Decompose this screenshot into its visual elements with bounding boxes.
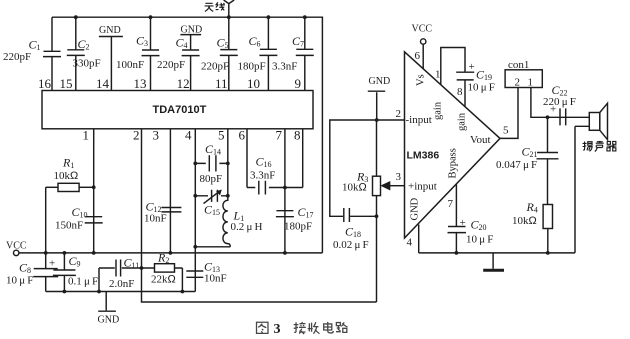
- svg-text:10kΩ: 10kΩ: [512, 215, 537, 227]
- svg-text:3: 3: [396, 171, 402, 183]
- svg-text:+: +: [469, 61, 475, 73]
- svg-text:10kΩ: 10kΩ: [54, 170, 79, 182]
- svg-text:3: 3: [153, 128, 160, 143]
- svg-text:14: 14: [96, 76, 110, 91]
- svg-text:80pF: 80pF: [200, 173, 223, 185]
- svg-text:150nF: 150nF: [55, 220, 83, 232]
- svg-text:11: 11: [215, 76, 228, 91]
- svg-text:5: 5: [503, 125, 509, 137]
- svg-text:8: 8: [457, 86, 463, 98]
- svg-text:gain: gain: [457, 112, 468, 131]
- svg-text:con1: con1: [508, 59, 529, 71]
- svg-text:0.1 μ F: 0.1 μ F: [68, 276, 98, 288]
- svg-text:100nF: 100nF: [116, 59, 144, 71]
- svg-text:330pF: 330pF: [73, 58, 101, 70]
- svg-text:0.047 μ F: 0.047 μ F: [496, 159, 537, 171]
- svg-text:2: 2: [396, 108, 402, 120]
- svg-text:1: 1: [83, 128, 90, 143]
- svg-text:VCC: VCC: [6, 241, 27, 252]
- svg-text:0.2 μ H: 0.2 μ H: [231, 221, 263, 233]
- svg-text:10kΩ: 10kΩ: [342, 182, 367, 194]
- svg-text:LM386: LM386: [407, 150, 440, 162]
- svg-text:0.02 μ F: 0.02 μ F: [333, 239, 369, 251]
- svg-text:1: 1: [435, 69, 441, 81]
- svg-text:2: 2: [515, 77, 521, 89]
- svg-text:Vs: Vs: [416, 74, 427, 86]
- svg-text:220pF: 220pF: [201, 61, 229, 73]
- svg-text:+input: +input: [408, 181, 437, 193]
- svg-text:9: 9: [295, 76, 302, 91]
- svg-text:10nF: 10nF: [204, 273, 227, 285]
- svg-text:5: 5: [218, 128, 225, 143]
- svg-text:10 μ F: 10 μ F: [6, 275, 33, 287]
- svg-text:GND: GND: [410, 197, 421, 220]
- svg-text:220 μ F: 220 μ F: [543, 96, 576, 108]
- svg-text:3.3nF: 3.3nF: [272, 61, 297, 73]
- svg-text:10 μ F: 10 μ F: [468, 82, 495, 94]
- svg-text:3.3nF: 3.3nF: [250, 170, 275, 182]
- svg-text:220pF: 220pF: [157, 59, 185, 71]
- svg-text:10: 10: [247, 76, 260, 91]
- svg-text:7: 7: [448, 198, 454, 210]
- svg-text:1: 1: [528, 77, 534, 89]
- svg-text:10nF: 10nF: [144, 213, 167, 225]
- svg-text:6: 6: [239, 128, 246, 143]
- svg-text:6: 6: [415, 50, 421, 62]
- svg-text:2.0nF: 2.0nF: [109, 278, 134, 290]
- svg-text:4: 4: [185, 128, 192, 143]
- svg-text:TDA7010T: TDA7010T: [153, 104, 207, 116]
- svg-text:+: +: [460, 217, 466, 229]
- svg-text:180pF: 180pF: [238, 61, 266, 73]
- svg-text:3: 3: [274, 322, 281, 337]
- svg-text:2: 2: [133, 128, 140, 143]
- svg-text:10 μ F: 10 μ F: [466, 234, 493, 246]
- svg-text:Vout: Vout: [470, 134, 491, 146]
- svg-text:Bypass: Bypass: [448, 148, 459, 178]
- svg-text:180pF: 180pF: [284, 221, 312, 233]
- svg-text:VCC: VCC: [412, 24, 433, 35]
- svg-text:GND: GND: [98, 315, 120, 326]
- svg-text:GND: GND: [369, 76, 391, 87]
- svg-text:13: 13: [134, 76, 147, 91]
- svg-text:-input: -input: [406, 114, 432, 126]
- svg-text:gain: gain: [433, 101, 444, 120]
- svg-text:7: 7: [276, 128, 283, 143]
- svg-text:+: +: [49, 258, 55, 270]
- svg-text:22kΩ: 22kΩ: [151, 274, 176, 286]
- svg-text:15: 15: [60, 76, 73, 91]
- svg-text:+: +: [550, 104, 556, 116]
- svg-text:GND: GND: [99, 25, 121, 36]
- svg-text:220pF: 220pF: [3, 51, 31, 63]
- svg-text:12: 12: [177, 76, 190, 91]
- svg-text:GND: GND: [181, 25, 203, 36]
- svg-text:16: 16: [38, 76, 52, 91]
- svg-text:8: 8: [294, 128, 301, 143]
- svg-text:4: 4: [407, 237, 413, 249]
